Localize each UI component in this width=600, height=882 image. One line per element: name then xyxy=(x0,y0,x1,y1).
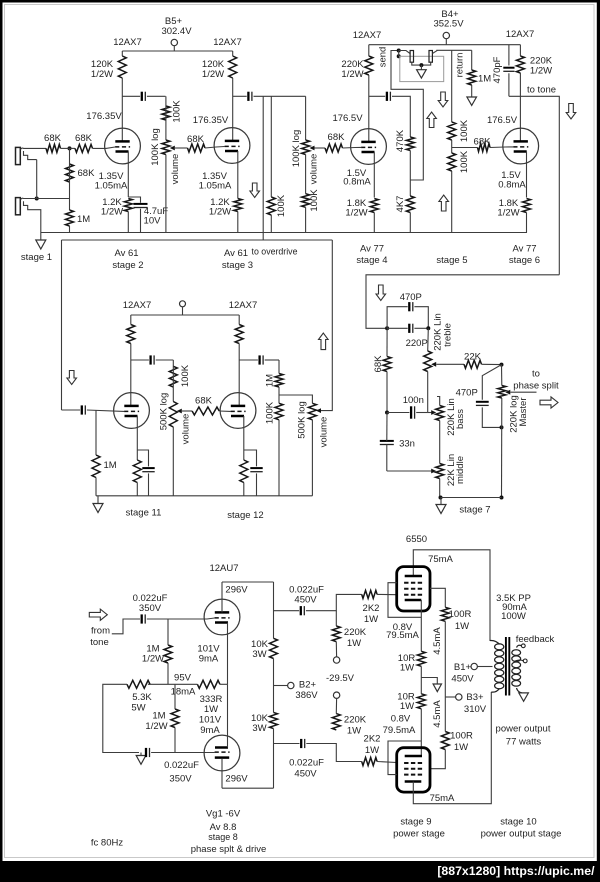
ground stage 7 xyxy=(436,505,446,514)
svg-text:fc 80Hz: fc 80Hz xyxy=(91,838,123,849)
wire 100K mix4 to pot xyxy=(172,360,174,402)
svg-text:B2+: B2+ xyxy=(299,680,317,691)
svg-text:5W: 5W xyxy=(131,703,145,714)
wire slope to 100n xyxy=(387,412,409,414)
svg-text:100K: 100K xyxy=(309,189,320,212)
wire treble top lead xyxy=(427,328,430,351)
label to phase split xyxy=(513,369,559,392)
svg-text:stage 8: stage 8 xyxy=(208,832,238,842)
ground stage 11 xyxy=(93,504,103,513)
svg-text:4.5mA: 4.5mA xyxy=(432,627,443,655)
wire V7 cathode lead xyxy=(227,623,229,685)
wire wiper3 to 68K xyxy=(182,410,192,412)
wire tail junction xyxy=(148,683,198,685)
capacitor coupling C2 xyxy=(248,92,252,101)
svg-text:1W: 1W xyxy=(347,726,361,737)
wire splitter out top xyxy=(274,610,300,612)
resistor 1M grid V7 xyxy=(164,645,172,663)
wire overdrive left drop xyxy=(61,240,63,410)
label 100K return a xyxy=(459,119,470,142)
label volume 2 xyxy=(309,154,320,185)
label 470K xyxy=(395,129,406,152)
capacitor 33n xyxy=(380,441,394,445)
wire plate rail bottom xyxy=(413,692,491,804)
wire pot3 to bus xyxy=(172,427,174,496)
wire between 68Ks xyxy=(61,147,76,149)
wire ground bus top xyxy=(41,232,527,234)
label B2+ xyxy=(295,680,318,702)
svg-text:79.5mA: 79.5mA xyxy=(386,630,419,641)
svg-text:stage 4: stage 4 xyxy=(356,255,387,266)
ground fx loop xyxy=(417,70,427,78)
svg-text:1/2W: 1/2W xyxy=(145,721,167,732)
label 176.35V V1 xyxy=(86,111,122,122)
junction treble top xyxy=(426,326,430,330)
svg-text:470K: 470K xyxy=(395,129,406,152)
pot wiper master xyxy=(505,390,510,395)
wire 470K to 4K7 node xyxy=(409,151,411,197)
pot wiper bass xyxy=(431,410,436,415)
label 12AX7 V6 xyxy=(229,300,258,311)
label 75mA bottom xyxy=(430,793,455,804)
wire cath V5 to bus xyxy=(136,483,138,496)
wire tone feed xyxy=(366,275,559,329)
wire cath cap V6 branch xyxy=(244,450,257,466)
wire to overdrive drop xyxy=(262,96,264,240)
label 470P master xyxy=(456,388,478,399)
label 0.022uF 350V top xyxy=(133,593,168,614)
svg-text:68K: 68K xyxy=(78,168,96,179)
svg-text:3W: 3W xyxy=(252,649,266,660)
label 12AX7 V5 xyxy=(123,300,152,311)
label 4K7 xyxy=(395,196,406,213)
svg-text:1/2W: 1/2W xyxy=(497,208,519,219)
svg-text:5.3K: 5.3K xyxy=(132,692,152,703)
label 4.5mA bottom xyxy=(432,700,443,728)
label 470P treble xyxy=(400,292,422,303)
label 10K 3W bottom xyxy=(251,713,269,734)
label Av 77 stage 4 xyxy=(356,244,387,267)
svg-text:Master: Master xyxy=(518,397,529,426)
label B1+ xyxy=(451,662,474,685)
label 100n xyxy=(403,395,424,406)
resistor 100K mix 4 xyxy=(169,366,177,387)
wire cathode top xyxy=(420,600,422,651)
label volume 4 xyxy=(318,417,329,448)
resistor 100K return a xyxy=(448,122,456,140)
svg-text:stage 9: stage 9 xyxy=(400,817,431,828)
wire V4 plate to tone node xyxy=(519,73,521,141)
label return xyxy=(454,53,465,78)
label 100K mix 3 xyxy=(309,189,320,212)
label Vg1 -6V xyxy=(206,809,241,820)
pot wiper volume 2 xyxy=(310,146,315,151)
resistor 2K2 top xyxy=(362,590,377,598)
ground splitter xyxy=(136,756,146,765)
resistor 100K mix 1 xyxy=(162,106,170,120)
svg-text:100K: 100K xyxy=(171,100,182,123)
svg-text:0.022uF: 0.022uF xyxy=(289,758,324,769)
wire send jack sleeve xyxy=(412,62,422,65)
wire V3 cathode to bus xyxy=(373,213,375,233)
wire 333R to cathodes xyxy=(220,683,228,685)
wire screen col bottom xyxy=(444,697,446,732)
wire bass to middle xyxy=(439,421,441,464)
label 220K Lin treble xyxy=(432,313,443,351)
resistor 1.2K cathode V2 xyxy=(234,199,242,212)
wire 470P path xyxy=(387,307,408,329)
wire 5.3K left drop xyxy=(103,684,139,752)
wire screen col top xyxy=(444,621,446,697)
wire to V2 grid xyxy=(205,147,225,149)
label 68K #6 xyxy=(474,137,492,148)
label to tone xyxy=(527,85,556,96)
terminal B5+ xyxy=(171,39,177,45)
capacitor 0.022uF out bottom xyxy=(301,739,305,748)
wire plate column mid xyxy=(273,659,275,713)
svg-text:350V: 350V xyxy=(169,774,192,785)
svg-text:stage 11: stage 11 xyxy=(126,508,162,519)
wire V1 plate lead xyxy=(121,78,123,141)
wire V6 plate tap xyxy=(239,359,258,361)
ground power xyxy=(433,684,441,692)
label 95V xyxy=(174,673,192,684)
svg-text:6550: 6550 xyxy=(406,534,427,545)
label 12AX7 V1 xyxy=(113,37,142,48)
wire 2K2 to grid top xyxy=(377,593,397,595)
wire C4 to 100K xyxy=(156,359,174,361)
resistor 4K7 xyxy=(406,196,414,213)
svg-text:1.05mA: 1.05mA xyxy=(95,181,128,192)
label 220K 1W top xyxy=(344,627,367,649)
svg-text:500K log: 500K log xyxy=(158,393,169,431)
svg-text:22K: 22K xyxy=(464,352,482,363)
wire suppressor top xyxy=(388,583,421,618)
label 6550 xyxy=(406,534,427,545)
svg-text:Av 61: Av 61 xyxy=(224,248,248,259)
svg-text:1/2W: 1/2W xyxy=(209,207,231,218)
resistor 5.3K xyxy=(127,680,150,688)
label 68K #2 xyxy=(75,133,93,144)
wire fx gnd stub xyxy=(420,65,422,70)
wire to tone run xyxy=(509,96,559,274)
svg-text:1/2W: 1/2W xyxy=(341,69,363,80)
resistor 1.8K cathode V4 xyxy=(523,199,531,213)
svg-text:68K: 68K xyxy=(195,396,213,407)
resistor 220K bias bottom xyxy=(332,714,340,730)
arrow flow to tone xyxy=(566,104,576,120)
capacitor 220P xyxy=(409,324,413,333)
label 1.5V V4 xyxy=(498,170,526,191)
label 1.8K V3 xyxy=(345,198,367,219)
wire B5+ stem xyxy=(173,46,175,51)
label 0.8V bottom xyxy=(383,714,416,737)
label 100K log 1 xyxy=(150,128,161,166)
wire bass top stub xyxy=(437,397,440,406)
wire cath cap V5 branch xyxy=(137,450,148,466)
resistor 1.8K cathode V3 xyxy=(370,199,378,213)
wire jack J1 switch contact xyxy=(24,151,37,160)
svg-text:Vg1 -6V: Vg1 -6V xyxy=(206,809,241,820)
wire B4+ rail xyxy=(369,44,521,46)
wire cathode cap to bus xyxy=(140,209,142,233)
wire V1 plate tap xyxy=(122,95,140,97)
label 2K2 1W top xyxy=(363,603,380,625)
svg-text:75mA: 75mA xyxy=(428,554,453,565)
wire gnd splitter stub xyxy=(140,753,142,756)
label 1M grid V5 xyxy=(104,460,117,471)
wire plate rail top xyxy=(413,550,490,641)
svg-text:1W: 1W xyxy=(204,704,218,715)
resistor plate V6 xyxy=(235,325,243,344)
wire 1M V5 to bus xyxy=(95,478,97,496)
tube V8 12AU7b xyxy=(204,735,240,771)
terminal bias top xyxy=(333,657,339,663)
wire 1M V7 top xyxy=(167,619,169,645)
svg-text:220K: 220K xyxy=(344,627,367,638)
resistor 100K mix 5 xyxy=(275,403,283,420)
wire 1M V8 bottom xyxy=(174,728,176,753)
wire 100K mix 2 drop xyxy=(270,96,272,197)
svg-text:stage 5: stage 5 xyxy=(436,255,467,266)
ground transformer xyxy=(519,693,529,701)
label 22K Lin middle xyxy=(446,454,457,486)
label 1M grid V6 xyxy=(264,374,275,387)
pot 220K log master xyxy=(498,386,506,399)
wire send return branch xyxy=(391,51,423,181)
resistor 68K grid stop 2 xyxy=(75,144,93,152)
svg-text:79.5mA: 79.5mA xyxy=(383,725,416,736)
wire plate column splitter xyxy=(273,582,275,638)
capacitor coupling C5 xyxy=(82,405,86,414)
wire C6 out xyxy=(265,359,279,361)
wire plate column low xyxy=(273,729,275,789)
wire 1M to 100K V6 xyxy=(278,387,280,403)
wire bias col top xyxy=(335,611,337,626)
wire 100K mix3 to bus xyxy=(305,207,307,232)
pot 22K Lin middle xyxy=(436,464,444,479)
svg-text:450V: 450V xyxy=(294,595,317,606)
wire to middle wiper xyxy=(387,470,432,472)
label stage 11 xyxy=(126,508,162,519)
svg-text:0.8mA: 0.8mA xyxy=(343,177,371,188)
svg-text:9mA: 9mA xyxy=(199,654,219,665)
svg-text:phase splt & drive: phase splt & drive xyxy=(191,844,267,855)
pot 100K log volume 1 xyxy=(162,140,170,155)
svg-text:1/2W: 1/2W xyxy=(142,654,164,665)
border right xyxy=(597,0,600,882)
wire 33n bottom xyxy=(386,445,388,472)
wire 1M return top xyxy=(471,50,473,70)
wire cathode mid xyxy=(420,666,422,694)
terminal B2+ xyxy=(288,682,294,688)
wire 1M to bus xyxy=(69,226,71,233)
wire B1+ center tap xyxy=(477,666,492,668)
label phase splt drive xyxy=(191,844,267,855)
svg-text:1M: 1M xyxy=(77,214,90,225)
label 120K V1 xyxy=(91,59,114,80)
wire wiper to 68K xyxy=(175,147,188,149)
label 0.022uF 450V bottom xyxy=(289,758,324,780)
pot wiper treble xyxy=(431,362,436,367)
svg-text:176.35V: 176.35V xyxy=(193,115,229,126)
arrow to phase split xyxy=(540,397,558,408)
label 12AU7 xyxy=(209,563,238,574)
tube 6550 bottom xyxy=(397,748,430,792)
svg-text:feedback: feedback xyxy=(516,634,555,645)
label 12AX7 V3 xyxy=(353,30,382,41)
resistor 1M grid V6 xyxy=(275,374,283,388)
resistor 1M grid V5 xyxy=(92,455,100,478)
wire cath cap V5 to bus xyxy=(148,473,150,495)
wire return jack arm xyxy=(432,50,437,53)
label 296V top xyxy=(225,585,248,596)
svg-text:1M: 1M xyxy=(478,74,491,85)
label 1.35V V1 xyxy=(95,171,128,192)
wire cathode gnd link xyxy=(421,678,437,685)
wire feedback tap 2 xyxy=(514,660,524,662)
label stage 1 xyxy=(21,252,52,263)
label 68K #1 xyxy=(44,133,62,144)
wire V1 cathode to bus xyxy=(127,212,129,233)
wire to V1 grid xyxy=(93,147,116,148)
wire 1M V6 column xyxy=(278,360,280,374)
label volume 1 xyxy=(170,154,181,185)
svg-text:12AX7: 12AX7 xyxy=(229,300,258,311)
label stage 9 xyxy=(393,817,445,840)
svg-text:to tone: to tone xyxy=(527,85,556,96)
resistor 220K bias top xyxy=(332,626,340,642)
wire 100K mix5 to bus xyxy=(278,420,280,496)
svg-text:1/2W: 1/2W xyxy=(345,208,367,219)
node B5+ label xyxy=(161,16,192,37)
label 333R xyxy=(200,694,223,715)
wire 100K to pot xyxy=(165,96,167,140)
wire cap2 wire to pot2 xyxy=(305,96,307,140)
wire treble wiper to 22K xyxy=(436,363,464,365)
jack J1 (input hi) xyxy=(16,147,24,164)
wire V3 cathode lead xyxy=(373,152,375,198)
wire master wiper out xyxy=(510,391,536,393)
label stage 12 xyxy=(227,510,263,521)
svg-text:470P: 470P xyxy=(456,388,478,399)
junction 68K xyxy=(68,146,72,150)
wire V2 plate tap xyxy=(233,95,247,97)
svg-text:0.022uF: 0.022uF xyxy=(164,760,199,771)
svg-text:stage 10: stage 10 xyxy=(500,817,536,828)
wire pot2 to 100K xyxy=(305,155,307,194)
wire divider mid xyxy=(451,140,453,153)
svg-text:12AX7: 12AX7 xyxy=(506,29,535,40)
wire C1 to 100K xyxy=(147,95,166,97)
svg-text:350V: 350V xyxy=(139,603,162,614)
arrow flow fx up xyxy=(427,112,437,128)
label 220K Lin bass xyxy=(446,398,457,436)
wire cath cap V6 to bus xyxy=(256,473,258,495)
label 470pF xyxy=(492,56,503,83)
svg-text:1W: 1W xyxy=(400,663,414,674)
wire return jack sleeve xyxy=(421,62,430,65)
arrow flow fx down xyxy=(438,92,448,107)
label 68K tone xyxy=(373,355,384,373)
wire overdrive run xyxy=(62,239,333,241)
resistor 68K to V3 xyxy=(325,144,343,152)
wire 4K7 to bus xyxy=(409,213,411,233)
resistor 333R xyxy=(197,680,220,688)
label 120K V2 xyxy=(202,59,225,80)
tube V4 12AX7d xyxy=(503,128,539,164)
wire divider to 68K xyxy=(452,147,478,149)
wire send jack arm xyxy=(399,51,411,54)
arrow flow overdrive xyxy=(67,371,77,385)
label 68K #4 xyxy=(187,134,205,145)
wire screen bottom xyxy=(430,750,445,769)
tube V6 12AX7f xyxy=(220,393,256,429)
label 68K #3 xyxy=(78,168,96,179)
wire splitter out bottom xyxy=(274,743,300,745)
wire V2 plate column xyxy=(232,51,234,56)
svg-text:0.8V: 0.8V xyxy=(391,714,411,725)
wire jack J1 tip to 68K xyxy=(23,147,46,149)
svg-text:B3+: B3+ xyxy=(466,692,484,703)
pot wiper middle xyxy=(431,469,436,474)
wire divider to bus xyxy=(451,171,453,233)
terminal B1+ xyxy=(471,663,477,669)
resistor 100K mix 3 xyxy=(302,194,310,208)
label volume 3 xyxy=(180,414,191,445)
svg-text:450V: 450V xyxy=(451,674,474,685)
svg-text:100K: 100K xyxy=(264,401,275,424)
fx loop box xyxy=(400,56,444,81)
svg-text:12AX7: 12AX7 xyxy=(213,37,242,48)
terminal bias bottom xyxy=(333,692,339,698)
label 1.2K V2 xyxy=(209,197,231,218)
label to overdrive xyxy=(252,247,298,257)
label fc 80Hz xyxy=(91,838,123,849)
wire V6 plate column xyxy=(238,315,240,325)
wire C3 to 470K xyxy=(392,96,410,137)
pot 100K log volume 2 xyxy=(302,140,310,155)
svg-text:power stage: power stage xyxy=(393,829,445,840)
label 10K 3W top xyxy=(251,639,269,660)
wire jack J2 switch contact xyxy=(24,201,41,240)
capacitor cathode V5 xyxy=(142,468,154,472)
label middle xyxy=(455,456,466,484)
svg-text:send: send xyxy=(377,47,388,68)
wire 470P master bottom xyxy=(482,407,501,427)
resistor 2K2 bottom xyxy=(362,758,377,766)
resistor 120K plate V2 xyxy=(229,56,237,78)
svg-text:100K log: 100K log xyxy=(150,128,161,166)
terminal heater mid xyxy=(180,301,186,307)
arrow flow od up xyxy=(319,333,329,350)
pot wiper volume 3 xyxy=(177,409,182,414)
svg-text:stage 6: stage 6 xyxy=(509,255,540,266)
capacitor 0.022uF in bottom xyxy=(146,748,150,757)
label feedback xyxy=(516,634,555,645)
svg-text:stage 12: stage 12 xyxy=(227,510,263,521)
svg-text:100K: 100K xyxy=(276,194,287,217)
wire master top lead xyxy=(501,365,503,386)
wire splitter rail bottom xyxy=(222,787,274,789)
label 100K log 2 xyxy=(291,130,302,168)
resistor 220K plate V3 xyxy=(365,56,373,75)
wire 68K tone top xyxy=(386,328,388,356)
wire gnd stub tone xyxy=(440,498,442,505)
jack FX send xyxy=(410,51,413,63)
arrow flow stage3 xyxy=(250,183,260,198)
label 1.2K V1 xyxy=(101,197,123,218)
